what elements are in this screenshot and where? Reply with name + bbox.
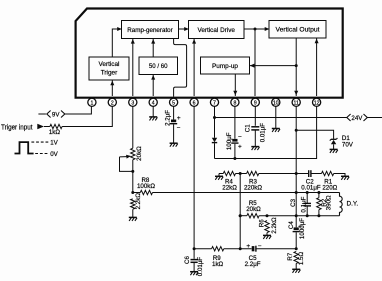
svg-text:Pump-up: Pump-up	[212, 63, 238, 70]
svg-text:Vertical Drive: Vertical Drive	[197, 27, 235, 34]
svg-text:1kΩ: 1kΩ	[212, 261, 224, 268]
svg-text:1: 1	[90, 100, 93, 106]
svg-text:C6: C6	[184, 255, 191, 263]
svg-text:50 / 60: 50 / 60	[149, 63, 168, 70]
svg-text:1kΩ: 1kΩ	[49, 129, 61, 136]
svg-text:20kΩ: 20kΩ	[246, 206, 261, 213]
svg-text:Vertical: Vertical	[99, 61, 120, 68]
svg-text:9: 9	[254, 100, 257, 106]
svg-text:0V: 0V	[50, 151, 58, 158]
svg-text:0.01μF: 0.01μF	[301, 185, 321, 192]
svg-text:0.1μF: 0.1μF	[300, 196, 307, 212]
svg-text:220kΩ: 220kΩ	[244, 185, 262, 192]
svg-text:12: 12	[314, 100, 320, 106]
svg-text:4: 4	[152, 100, 155, 106]
svg-text:1000μF: 1000μF	[299, 218, 306, 239]
svg-text:C4: C4	[288, 221, 295, 229]
svg-text:1.5Ω: 1.5Ω	[298, 252, 305, 266]
svg-text:+: +	[177, 115, 181, 122]
svg-text:3: 3	[131, 100, 134, 106]
svg-text:C3: C3	[290, 198, 297, 206]
svg-text:9V: 9V	[52, 111, 60, 118]
svg-text:−: −	[258, 243, 262, 250]
svg-text:Vertical Output: Vertical Output	[276, 27, 320, 34]
svg-text:−: −	[238, 133, 242, 140]
svg-text:100μF: 100μF	[226, 132, 233, 150]
svg-text:Ramp-generator: Ramp-generator	[127, 27, 173, 34]
svg-text:2.2kΩ: 2.2kΩ	[135, 193, 142, 210]
svg-text:7: 7	[213, 100, 216, 106]
svg-text:R7: R7	[287, 252, 294, 260]
svg-text:2.2μF: 2.2μF	[245, 261, 261, 268]
svg-text:10: 10	[273, 100, 279, 106]
svg-text:Triger: Triger	[101, 70, 118, 77]
svg-text:D.Y.: D.Y.	[347, 201, 359, 208]
svg-text:2.2kΩ: 2.2kΩ	[271, 217, 278, 234]
svg-text:+: +	[246, 243, 250, 250]
svg-text:6: 6	[193, 100, 196, 106]
svg-text:220Ω: 220Ω	[322, 185, 337, 192]
svg-text:1V: 1V	[50, 140, 58, 147]
svg-text:+: +	[238, 143, 242, 150]
svg-text:100kΩ: 100kΩ	[137, 183, 155, 190]
svg-text:20kΩ: 20kΩ	[136, 146, 143, 161]
svg-text:C1: C1	[244, 124, 251, 132]
svg-text:−: −	[177, 125, 181, 132]
svg-text:5: 5	[172, 100, 175, 106]
svg-text:390Ω: 390Ω	[326, 195, 333, 210]
svg-text:8: 8	[233, 100, 236, 106]
svg-text:0.01μF: 0.01μF	[259, 123, 266, 143]
svg-text:Triger input: Triger input	[1, 124, 33, 131]
svg-text:70V: 70V	[342, 142, 354, 149]
svg-text:2.2μF: 2.2μF	[165, 110, 172, 126]
svg-text:0.01μF: 0.01μF	[197, 257, 204, 277]
svg-text:11: 11	[294, 100, 299, 106]
svg-text:24V: 24V	[351, 115, 363, 122]
svg-text:22kΩ: 22kΩ	[222, 185, 237, 192]
svg-text:R6: R6	[259, 219, 266, 227]
svg-text:2: 2	[111, 100, 114, 106]
